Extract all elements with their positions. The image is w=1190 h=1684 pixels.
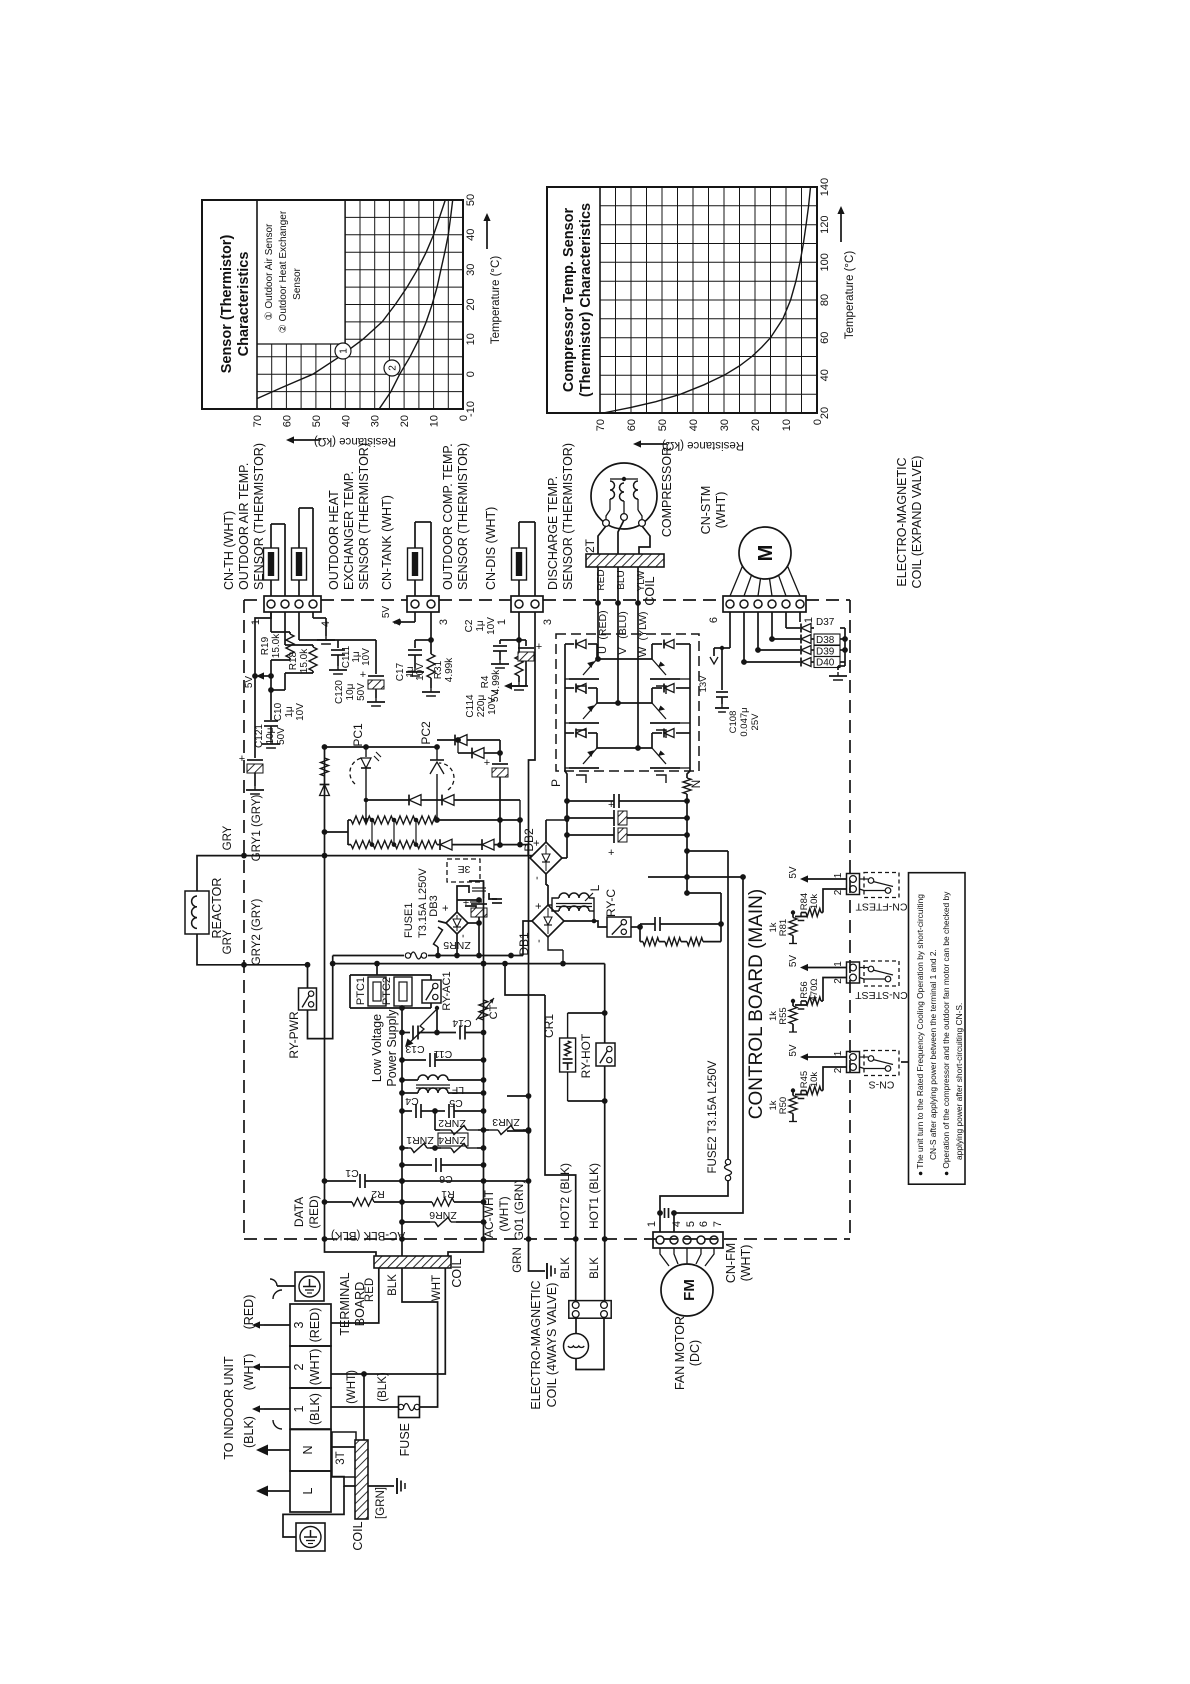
svg-text:1: 1 [803,617,815,623]
svg-text:C4: C4 [405,1095,419,1107]
capacitor C14 [437,1013,486,1040]
arrow to indoor 2 [252,1363,290,1370]
svg-text:CN-S: CN-S [869,1079,895,1091]
svg-text:10V: 10V [486,617,497,635]
svg-text:ZNR1: ZNR1 [406,1134,434,1146]
svg-text:1μ: 1μ [475,620,486,632]
svg-text:40: 40 [465,229,477,241]
svg-text:Low Voltage: Low Voltage [370,1014,384,1082]
svg-text:+: + [608,799,614,811]
wire fan N branch 2 [671,877,743,1232]
svg-text:C14: C14 [452,1017,471,1029]
resistor R18 [268,612,317,693]
wire GRN to earth [529,1239,546,1271]
svg-text:GRN: GRN [512,1247,524,1273]
connector 4ways valve [569,1301,611,1319]
svg-text:20: 20 [750,419,762,431]
fuse FUSE1 [403,868,429,959]
graph2 axis labels [595,178,856,451]
compressor motor circle [591,463,657,529]
svg-text:ZNR4: ZNR4 [438,1134,466,1146]
svg-text:U: U [597,646,609,654]
svg-text:M: M [755,545,777,562]
svg-text:3T: 3T [335,1451,347,1464]
PTC2 [381,977,412,1006]
label AC-WHT (WHT) [482,1189,511,1238]
label RED wire [364,1278,376,1302]
inverter phase junction row 748 [597,745,652,751]
svg-text:BLK: BLK [560,1257,572,1279]
switch box CN-FTEST [860,873,900,898]
connector CN-S [833,1050,860,1073]
svg-text:D38: D38 [816,635,835,646]
svg-text:① Outdoor Air Sensor: ① Outdoor Air Sensor [264,223,275,320]
svg-text:CN-FTEST: CN-FTEST [855,901,907,913]
label COMPRESSOR [660,447,674,537]
N rail resistor [683,771,691,896]
svg-text:10: 10 [429,415,441,427]
svg-text:CN-TH (WHT): CN-TH (WHT) [222,511,236,590]
svg-text:Temperature (°C): Temperature (°C) [844,251,856,339]
svg-text:GRY1 (GRY): GRY1 (GRY) [251,794,263,861]
svg-text:LF: LF [452,1084,464,1096]
svg-text:L: L [301,1487,315,1494]
svg-text:10k: 10k [809,894,820,910]
compressor leads [598,520,650,554]
wire CN-STM pin6 [799,612,801,622]
pin label 1 CN-STM [803,617,815,623]
capacitor C4 [402,1095,438,1118]
filter capacitor P-N [567,794,687,808]
svg-text:40: 40 [340,415,352,427]
electrolytic cap after DB3 [457,897,487,956]
coil 3T hatched bar [355,1440,368,1519]
svg-text:80: 80 [819,294,831,306]
svg-text:DB1: DB1 [517,932,531,956]
svg-text:3: 3 [292,1321,306,1328]
svg-text:RY-C: RY-C [604,889,618,917]
svg-text:CN-S after applying power betw: CN-S after applying power between the te… [928,949,938,1160]
pin label 1 CN-TH [250,619,262,625]
svg-text:COMPRESSOR: COMPRESSOR [660,447,674,537]
svg-text:+: + [536,641,542,653]
IGBT high-side cell row 659 [565,640,599,695]
label TERMINAL BOARD [338,1272,367,1335]
svg-text:applying power after short-cir: applying power after short-circuiting CN… [954,1003,964,1160]
compressor wires RED BLU YLW [595,567,641,606]
svg-text:SENSOR (THERMISTOR): SENSOR (THERMISTOR) [252,443,266,590]
vertical wire mid x324 [322,747,328,1242]
wire rail x402 [399,1014,405,1242]
resistor ladder row 1 [322,816,523,845]
svg-text:1: 1 [646,1221,658,1227]
svg-text:3: 3 [542,619,554,625]
label OUTDOOR HEAT EXCHANGER TEMP. SENSOR [327,443,371,590]
svg-text:RY-AC1: RY-AC1 [441,971,453,1010]
resistor R1 [402,1188,484,1206]
graph1 curve 2 outdoor heat exchanger sensor [379,200,453,409]
svg-text:CT: CT [488,1004,500,1019]
label GRY top [222,825,234,850]
5V arrow CN-TANK [381,606,415,626]
fuse FUSE main [398,1397,419,1418]
wire rail x255 [252,612,271,745]
svg-text:Compressor Temp. Sensor: Compressor Temp. Sensor [561,208,577,393]
svg-text:COIL (EXPAND VALVE): COIL (EXPAND VALVE) [910,456,924,589]
svg-text:● The unit turn to the Rated F: ● The unit turn to the Rated Frequency C… [915,894,925,1176]
label (WHT) fuse area [346,1370,358,1404]
wire x402 exit through coil [401,1239,403,1256]
5V arrow CN-TH [244,672,271,688]
reactor box [185,891,209,934]
svg-text:50: 50 [657,419,669,431]
wire fuse to terminal 1 [331,1406,399,1408]
varistor ZNR3 [484,1116,532,1135]
svg-text:+: + [440,905,452,911]
wire ladder top rail [322,744,440,750]
svg-text:(RED): (RED) [307,1195,321,1228]
label CN-TANK (WHT) [380,495,394,590]
wire HOT1 to valve [602,1236,608,1300]
stepper motor wires [730,566,800,596]
diode pair to DB2 [437,735,503,762]
svg-text:5V: 5V [244,676,255,689]
wire AC rail 963 [330,961,545,995]
capacitor C11 [399,1048,486,1067]
inverter phase junction row 703 [597,700,652,706]
capacitor C120 electrolytic [334,640,385,706]
relay RY-C [564,889,631,937]
svg-text:20: 20 [465,298,477,310]
P rail [564,771,570,858]
svg-text:7: 7 [712,1221,724,1227]
resistor R84 [795,889,847,921]
capacitor C2 [464,612,522,668]
svg-text:+: + [533,903,545,909]
arrow to indoor 1 [252,1405,290,1412]
svg-text:FUSE: FUSE [398,1423,412,1456]
capacitor C121 electrolytic [239,724,287,794]
svg-text:DATA: DATA [292,1197,306,1227]
resistor R4 [480,640,528,694]
IGBT low-side cell row 659 [650,640,690,695]
terminal coil hatched bar [374,1256,451,1268]
svg-text:CN-FM: CN-FM [724,1243,738,1283]
resistor R81 [768,910,797,943]
svg-text:5: 5 [685,1221,697,1227]
svg-text:(BLK): (BLK) [377,1372,389,1402]
svg-text:70: 70 [595,419,607,431]
svg-text:140: 140 [819,178,831,196]
graph: Sensor (Thermistor) Characteristics [202,200,463,409]
svg-text:PC1: PC1 [351,723,365,747]
svg-text:30: 30 [465,264,477,276]
label TO INDOOR UNIT [222,1356,236,1460]
capacitor C111 [299,612,372,674]
pin label 3 CN-DIS [542,619,554,625]
svg-text:FUSE1: FUSE1 [403,903,415,938]
wire WHT to terminal 2 [331,1268,445,1440]
capacitor C13 [399,1026,440,1056]
svg-text:0: 0 [465,371,477,377]
svg-text:10μ: 10μ [345,683,356,700]
svg-text:15.0k: 15.0k [271,633,282,658]
svg-text:100: 100 [819,253,831,271]
label OUTDOOR AIR TEMP. [237,463,251,590]
svg-text:(WHT): (WHT) [497,1196,511,1231]
thermistor outdoor heat exchanger sensor [292,508,314,596]
svg-text:C13: C13 [405,1043,424,1055]
IGBT low-side cell row 748 [650,729,690,784]
svg-text:2: 2 [833,1067,844,1073]
svg-text:DISCHARGE TEMP.: DISCHARGE TEMP. [546,476,560,590]
svg-text:4: 4 [671,1221,683,1227]
varistor ZNR4 [435,1133,484,1153]
svg-text:10V: 10V [361,648,372,666]
svg-text:1k: 1k [768,922,779,932]
label REACTOR [210,878,224,939]
inverter phase junction row 659 [595,656,652,662]
svg-text:(WHT): (WHT) [308,1349,322,1386]
svg-text:ZNR6: ZNR6 [429,1209,457,1221]
svg-text:10V: 10V [295,703,306,721]
graph1 curve 1 outdoor air sensor [257,200,445,399]
bridge DB1 [517,903,564,956]
svg-text:RED: RED [596,569,607,590]
label (BLK) indoor [242,1416,256,1448]
svg-text:C1: C1 [345,1167,359,1179]
label (BLK) fuse area [377,1372,389,1402]
wire discharge sensor long [526,612,535,1242]
svg-text:1: 1 [250,619,262,625]
svg-text:PC2: PC2 [419,721,433,745]
resistor R50 [768,1088,797,1121]
wire bar to GRN earth [367,1478,405,1494]
transformer L [548,884,602,921]
svg-text:(WHT): (WHT) [346,1370,358,1404]
svg-text:L: L [588,884,602,891]
svg-text:COIL (4WAYS VALVE): COIL (4WAYS VALVE) [545,1283,559,1408]
svg-text:50: 50 [465,194,477,206]
svg-text:Sensor (Thermistor): Sensor (Thermistor) [219,235,235,374]
diode D39 [801,646,840,658]
label GRY1 (GRY) [251,794,263,861]
rail 963 [505,961,605,1013]
label [GRN] [375,1487,387,1519]
svg-text:G01 (GRN): G01 (GRN) [512,1180,526,1241]
wire DB1 bottom loop [548,937,563,964]
wire AC rail 955 [333,921,532,958]
svg-text:OUTDOOR AIR TEMP.: OUTDOOR AIR TEMP. [237,463,251,590]
svg-text:+: + [531,840,543,846]
diode on x324 [320,785,330,796]
svg-text:OUTDOOR HEAT: OUTDOOR HEAT [327,490,341,590]
diode common bus to ground [811,628,848,670]
fuse FUSE2 [707,1060,732,1180]
wire RED to terminal 3 [331,1268,379,1323]
stepper driver diodes D37-D40 wires [741,612,800,665]
svg-text:Resistance (kΩ): Resistance (kΩ) [662,439,744,451]
svg-text:PTC1: PTC1 [355,977,367,1005]
varistor ZNR5 [434,921,471,956]
svg-text:30: 30 [719,419,731,431]
svg-text:C114: C114 [465,694,476,718]
resistor R56 [795,978,847,1010]
graph1 curve marker 2 [384,360,400,376]
connector CN-TANK [407,596,439,612]
cable group brackets [273,1290,282,1429]
svg-text:(WHT): (WHT) [739,1245,753,1282]
label SENSOR (THERMISTOR) 1 [252,443,266,590]
label CN-FM (WHT) [724,1243,753,1283]
capacitor C108 [715,648,761,737]
electrolytic cap PC area [484,757,508,848]
connector CN-STEST [833,961,860,984]
compressor terminal 2T hatched bar [586,554,664,567]
varistor ZNR2 [435,1111,484,1135]
wire labels (RED)(BLU)(YLW) [597,610,649,640]
svg-text:DB3: DB3 [428,895,440,916]
svg-text:(WHT): (WHT) [714,492,728,529]
diode D38 [801,634,840,646]
svg-text:+: + [608,847,614,859]
arrow to indoor N [256,1445,290,1456]
svg-text:● Operation of the compressor: ● Operation of the compressor and the ou… [941,891,951,1176]
PTC parallel block bus [350,964,439,1014]
label AC-BLK (BLK) [331,1229,405,1241]
svg-text:1k: 1k [768,1100,779,1110]
svg-text:10μ: 10μ [265,727,276,744]
resistor R45 [795,1067,847,1099]
svg-text:R81: R81 [778,919,789,936]
wire G01 branches [507,1093,531,1134]
svg-text:40: 40 [819,369,831,381]
svg-text:RY-PWR: RY-PWR [287,1011,301,1059]
svg-text:ZNR3: ZNR3 [492,1116,520,1128]
terminal 3 (RED) [290,1304,331,1346]
graph1 curve marker 1 [335,343,351,359]
switching MOSFET sketch [465,902,482,912]
pin label 1 CN-TANK [392,619,404,625]
label CN-S [869,1079,895,1091]
svg-text:② Outdoor Heat Exchanger: ② Outdoor Heat Exchanger [278,210,289,333]
svg-text:AC-BLK (BLK): AC-BLK (BLK) [331,1229,405,1241]
svg-text:C5: C5 [449,1097,463,1109]
capacitor between fan wires [665,1208,669,1218]
label COIL compressor [643,576,657,605]
svg-text:4.99k: 4.99k [444,657,455,682]
svg-text:10: 10 [781,419,793,431]
svg-text:YLW: YLW [636,570,647,591]
svg-text:CN-STEST: CN-STEST [855,989,908,1001]
graph: Compressor Temp. Sensor (Thermistor) Characteristics [547,187,817,413]
svg-text:R18: R18 [288,651,299,670]
svg-text:1: 1 [496,619,508,625]
svg-text:D40: D40 [816,658,835,669]
svg-text:-10: -10 [465,401,477,417]
electro-magnetic coil 4ways valve [564,1318,605,1370]
svg-text:C120: C120 [334,680,345,704]
wires U V W into inverter [598,603,638,748]
svg-text:D39: D39 [816,647,835,658]
label P [549,779,563,787]
label Low Voltage Power Supply [370,1008,438,1087]
label DATA (RED) [292,1195,321,1228]
svg-text:[GRN]: [GRN] [375,1487,387,1519]
svg-text:TO INDOOR UNIT: TO INDOOR UNIT [222,1356,236,1460]
svg-text:Sensor: Sensor [292,267,303,299]
svg-text:50: 50 [311,415,323,427]
svg-text:60: 60 [281,415,293,427]
svg-text:C108: C108 [728,711,739,734]
ground CN-TH pin4 [313,612,335,644]
IGBT low-side cell row 703 [650,684,690,739]
svg-text:RY-HOT: RY-HOT [579,1033,593,1078]
capacitor C10 [262,676,306,748]
wire BLK to fuse [402,1268,438,1407]
svg-text:-: - [531,876,543,880]
resistor ladder row 2 [348,820,528,856]
svg-text:3E: 3E [458,863,471,875]
labels U V W [597,646,649,657]
label CN-STM (WHT) [699,486,728,535]
svg-text:COIL: COIL [351,1521,365,1550]
switch box CN-STEST [860,961,900,986]
label (WHT) indoor [242,1354,256,1391]
inverter right bus [689,644,691,771]
5V arrow CN-STEST [788,955,847,972]
svg-text:3: 3 [438,619,450,625]
svg-text:5V: 5V [381,606,392,619]
wire CN-STM pin6 13V [714,612,730,656]
label COIL terminal [450,1258,464,1287]
svg-text:FM: FM [681,1279,698,1301]
svg-text:ELECTRO-MAGNETIC: ELECTRO-MAGNETIC [895,457,909,586]
IGBT high-side cell row 703 [565,684,599,739]
relay RY-PWR [287,956,333,1059]
svg-text:(DC): (DC) [688,1340,702,1366]
svg-text:1k: 1k [768,1011,779,1021]
capacitor C6 [402,1158,484,1185]
bridge DB3 [428,895,469,955]
pin label 4 CN-TH [320,621,332,627]
ground stepper diodes [829,672,847,680]
svg-text:C10: C10 [273,702,284,721]
terminal N [290,1430,331,1472]
svg-text:PTC2: PTC2 [381,977,393,1005]
thermistor discharge temp sensor [512,522,536,596]
svg-text:470Ω: 470Ω [809,979,820,1002]
svg-text:C6: C6 [439,1173,453,1185]
svg-text:1μ: 1μ [284,706,295,718]
svg-text:WHT: WHT [431,1275,443,1301]
wire DB2 plus to P [546,818,569,858]
svg-text:Characteristics: Characteristics [236,252,252,357]
svg-text:2: 2 [833,889,844,895]
svg-text:CR1: CR1 [542,1014,556,1038]
optocoupler PC1 [350,723,381,820]
inverter module dashed box [556,634,699,771]
label OUTDOOR COMP. TEMP. SENSOR [441,443,470,590]
svg-text:GRY2 (GRY): GRY2 (GRY) [251,898,263,965]
label G01 (GRN) [512,1180,526,1241]
13V open arrow [698,657,718,692]
svg-text:R1: R1 [441,1188,455,1200]
svg-text:HOT2 (BLK): HOT2 (BLK) [558,1163,572,1229]
wire labels RED BLU YLW [596,569,647,591]
resistor R55 [768,999,797,1032]
svg-text:+: + [463,897,469,909]
